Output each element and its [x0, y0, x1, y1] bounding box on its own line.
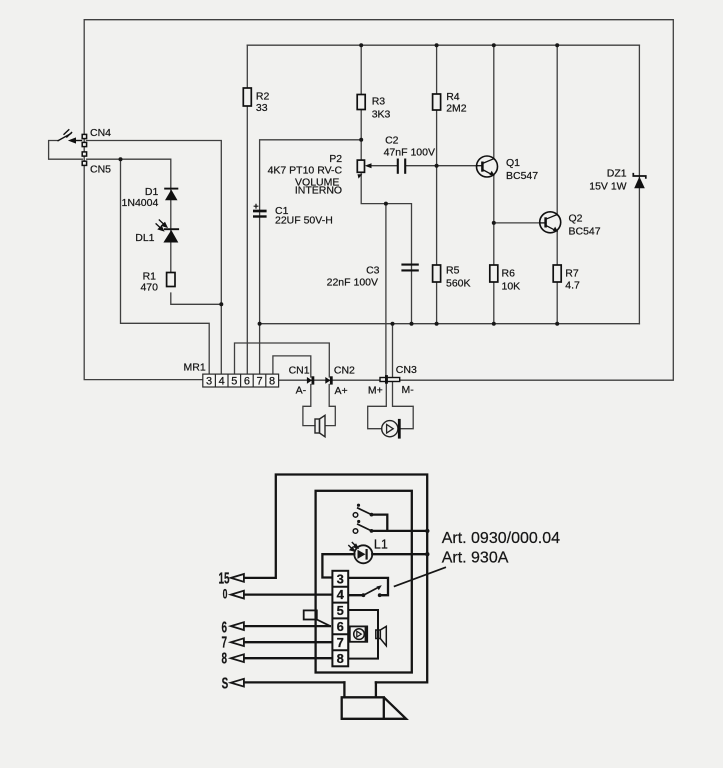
svg-text:A+: A+	[335, 385, 348, 397]
svg-text:6: 6	[337, 619, 344, 634]
svg-text:1N4004: 1N4004	[122, 197, 159, 209]
svg-text:BC547: BC547	[506, 170, 538, 182]
svg-text:Q1: Q1	[506, 157, 520, 169]
svg-text:47nF 100V: 47nF 100V	[384, 146, 435, 158]
svg-text:4: 4	[219, 376, 225, 388]
svg-text:C2: C2	[385, 135, 399, 147]
svg-text:3K3: 3K3	[372, 109, 391, 121]
svg-text:R7: R7	[565, 268, 579, 280]
svg-text:M-: M-	[402, 384, 415, 396]
svg-text:S: S	[222, 674, 229, 692]
svg-text:CN2: CN2	[334, 365, 355, 377]
svg-text:3: 3	[337, 571, 344, 586]
svg-text:R6: R6	[502, 268, 516, 280]
svg-text:Q2: Q2	[569, 213, 583, 225]
svg-text:15V 1W: 15V 1W	[589, 181, 626, 193]
svg-text:Art. 930A: Art. 930A	[442, 550, 509, 567]
svg-text:4.7: 4.7	[565, 280, 580, 292]
svg-text:4K7 PT10 RV-C: 4K7 PT10 RV-C	[268, 164, 343, 176]
svg-text:Art. 0930/000.04: Art. 0930/000.04	[442, 530, 560, 547]
svg-text:CN3: CN3	[396, 364, 417, 376]
svg-text:22UF 50V-H: 22UF 50V-H	[275, 215, 333, 227]
svg-text:C3: C3	[366, 265, 380, 277]
svg-text:R3: R3	[372, 96, 386, 108]
svg-text:7: 7	[337, 635, 344, 650]
svg-text:INTERNO: INTERNO	[295, 185, 342, 197]
svg-text:DZ1: DZ1	[607, 168, 627, 180]
svg-text:6: 6	[244, 376, 250, 388]
svg-text:R2: R2	[256, 91, 270, 103]
svg-text:8: 8	[269, 376, 275, 388]
svg-text:5: 5	[337, 603, 344, 618]
svg-text:R5: R5	[446, 265, 460, 277]
svg-text:BC547: BC547	[569, 226, 601, 238]
svg-text:A-: A-	[296, 385, 307, 397]
svg-text:M+: M+	[368, 385, 383, 397]
svg-text:7: 7	[256, 376, 262, 388]
svg-text:10K: 10K	[502, 281, 521, 293]
svg-text:L1: L1	[374, 538, 388, 552]
svg-text:8: 8	[221, 649, 227, 667]
svg-text:2M2: 2M2	[446, 103, 467, 115]
svg-text:CN1: CN1	[289, 365, 310, 377]
svg-text:470: 470	[140, 282, 158, 294]
svg-text:CN5: CN5	[90, 164, 111, 176]
svg-text:8: 8	[337, 651, 344, 666]
svg-text:CN4: CN4	[90, 127, 111, 139]
svg-text:DL1: DL1	[135, 232, 154, 244]
svg-text:15: 15	[218, 569, 229, 587]
svg-text:33: 33	[256, 102, 268, 114]
svg-text:4: 4	[337, 587, 345, 602]
svg-text:0: 0	[223, 587, 228, 603]
svg-text:MR1: MR1	[184, 362, 206, 374]
svg-text:R4: R4	[446, 91, 460, 103]
svg-text:5: 5	[231, 376, 237, 388]
svg-text:P2: P2	[329, 153, 342, 165]
svg-text:560K: 560K	[446, 278, 471, 290]
svg-text:22nF 100V: 22nF 100V	[327, 277, 378, 289]
svg-text:3: 3	[206, 376, 212, 388]
